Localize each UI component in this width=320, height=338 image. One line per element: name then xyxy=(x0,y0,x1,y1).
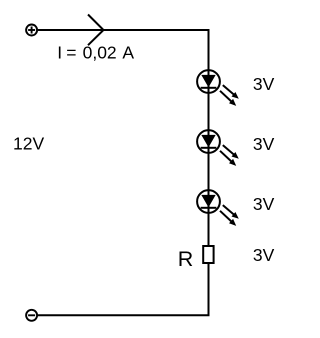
wire top horizontal xyxy=(38,29,210,31)
LED D1 xyxy=(197,70,239,106)
terminal minus (negative supply) xyxy=(26,310,37,321)
resistor R xyxy=(203,246,213,263)
svg-text:R: R xyxy=(178,247,194,271)
svg-text:3V: 3V xyxy=(253,245,275,265)
svg-text:3V: 3V xyxy=(253,74,275,94)
wire bottom horizontal xyxy=(38,314,210,316)
svg-text:I=0,02A: I=0,02A xyxy=(57,43,134,63)
svg-text:12V: 12V xyxy=(13,134,44,154)
LED D3 xyxy=(197,190,239,226)
terminal plus (positive supply) xyxy=(26,25,37,36)
current arrow xyxy=(88,15,104,46)
wire right vertical xyxy=(208,29,210,315)
svg-text:3V: 3V xyxy=(253,194,275,214)
LED D2 xyxy=(197,130,239,166)
svg-text:3V: 3V xyxy=(253,134,275,154)
